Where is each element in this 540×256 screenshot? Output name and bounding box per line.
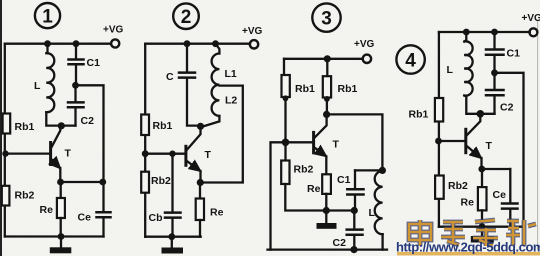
svg-text:Rb2: Rb2 [151, 175, 171, 187]
svg-text:+VG: +VG [522, 13, 540, 24]
svg-text:+VG: +VG [103, 25, 124, 36]
svg-text:Rb1: Rb1 [295, 83, 315, 95]
svg-text:Ce: Ce [78, 212, 92, 224]
svg-text:C2: C2 [81, 115, 95, 127]
svg-text:L2: L2 [225, 95, 237, 107]
svg-text:C1: C1 [87, 57, 101, 69]
svg-text:Rb2: Rb2 [294, 164, 314, 176]
svg-text:Re: Re [307, 183, 321, 195]
svg-text:C: C [166, 71, 174, 83]
svg-text:4: 4 [405, 51, 416, 72]
svg-text:L: L [447, 64, 454, 76]
svg-text:http://www.2qd-5ddq.com: http://www.2qd-5ddq.com [396, 240, 540, 255]
svg-text:C1: C1 [507, 48, 521, 60]
svg-text:L: L [34, 80, 41, 92]
svg-text:Rb1: Rb1 [338, 83, 358, 95]
svg-text:3: 3 [321, 9, 332, 30]
svg-text:C2: C2 [333, 237, 347, 249]
svg-text:Rb2: Rb2 [15, 190, 35, 202]
svg-text:Re: Re [461, 197, 475, 209]
svg-text:Cb: Cb [149, 212, 163, 224]
svg-text:Rb1: Rb1 [409, 109, 429, 121]
svg-text:T: T [205, 149, 212, 161]
svg-text:L1: L1 [225, 68, 237, 80]
svg-text:1: 1 [42, 6, 53, 27]
svg-text:T: T [65, 148, 72, 160]
svg-text:2: 2 [181, 7, 192, 28]
svg-text:+VG: +VG [242, 26, 263, 37]
svg-text:T: T [486, 140, 493, 152]
svg-text:L: L [369, 207, 376, 219]
svg-text:Ce: Ce [493, 189, 507, 201]
svg-text:Rb2: Rb2 [448, 180, 468, 192]
svg-text:Re: Re [40, 204, 54, 216]
svg-text:+VG: +VG [354, 39, 375, 50]
svg-text:Rb1: Rb1 [15, 121, 35, 133]
svg-text:C1: C1 [337, 174, 351, 186]
svg-text:Rb1: Rb1 [153, 120, 173, 132]
svg-text:C2: C2 [500, 102, 514, 114]
svg-text:Re: Re [210, 207, 224, 219]
svg-text:T: T [333, 139, 340, 151]
